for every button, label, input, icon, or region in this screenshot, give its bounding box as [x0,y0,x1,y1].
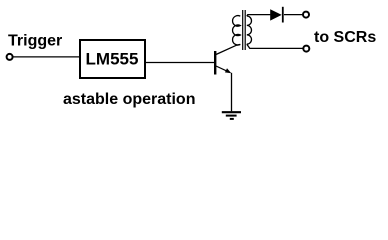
wire trigger to LM555 [13,56,80,58]
wire LM555 output to Q1 base [146,62,215,64]
diode D1 anode triangle [270,9,282,20]
svg-text:Trigger: Trigger [8,32,62,49]
transformer TR1 secondary winding [247,16,252,44]
terminal T1 (trigger input) [7,54,13,60]
ground symbol [222,112,241,119]
transformer TR1 primary winding [233,16,241,45]
svg-text:LM555: LM555 [86,49,139,68]
svg-text:to SCRs: to SCRs [314,29,376,46]
transformer TR1 core [243,10,246,50]
wire secondary top to diode [247,15,271,16]
terminal T2 (output top) [303,12,309,18]
wire secondary bottom to terminal [247,44,303,48]
transistor Q1 collector [216,44,240,54]
wire emitter to ground [231,73,233,112]
transistor Q1 base bar [214,51,216,75]
wire diode to terminal [284,14,303,16]
svg-text:astable operation: astable operation [63,91,195,108]
emitter arrowhead [225,68,231,73]
transistor Q1 emitter [216,66,229,72]
IC U1 LM555 box [80,40,145,78]
diode D1 cathode bar [282,7,284,23]
terminal T3 (output bottom) [303,46,309,52]
